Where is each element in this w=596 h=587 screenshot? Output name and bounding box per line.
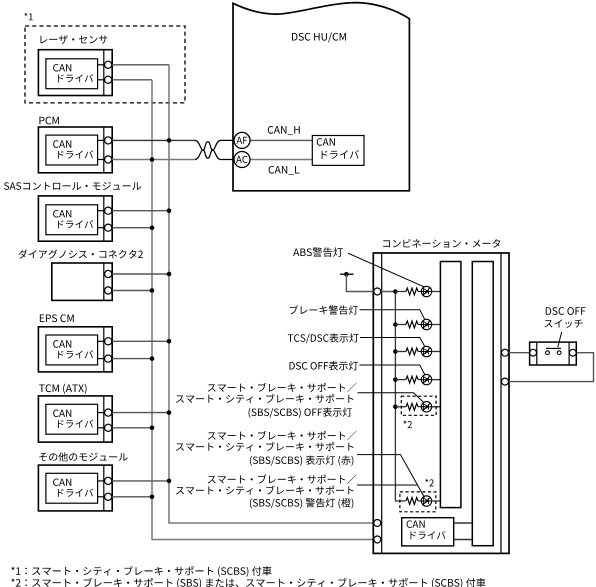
resistor R4 (DSC OFF indicator lamp) <box>406 376 418 383</box>
switch blade <box>546 347 561 349</box>
wire meter CAN driver to bar2 (H) <box>454 522 473 524</box>
pin switch left <box>530 349 537 356</box>
junction dot diagnosis CAN_H <box>167 272 172 277</box>
resistor R1 (ABS warning lamp) <box>406 288 418 295</box>
wire PCM CAN_L to DSC <box>112 159 195 161</box>
label SBS/SCBS orange lamp line1 <box>208 475 357 484</box>
junction dot PCM CAN_L / bus <box>150 157 155 162</box>
junction dot feed row4 <box>393 377 398 382</box>
wire PCM CAN_H to DSC <box>112 139 195 141</box>
wire lamp row 4 to bar <box>432 379 441 381</box>
lamp L6 SBS/SCBS warning lamp <box>418 496 440 506</box>
label *2 for OFF lamp <box>403 421 412 429</box>
label DSC OFF switch line2 <box>545 319 583 328</box>
wire meter CAN driver to bar2 (L) <box>454 539 473 541</box>
switch contact right <box>557 351 561 355</box>
wire AC to CAN driver (CAN_L inside DSC) <box>250 159 312 161</box>
module U1 laser sensor box <box>38 50 112 96</box>
pin EPS CAN_L <box>105 355 112 362</box>
twisted pair CAN_H strand <box>195 140 234 158</box>
label *1 <box>24 13 32 21</box>
junction dot feed row5 <box>393 405 398 410</box>
wire feed to resistor row 5 <box>395 406 406 408</box>
label SBS/SCBS OFF lamp line2 <box>176 394 353 403</box>
net label CAN_H <box>268 126 300 135</box>
leader line DSC OFF switch label <box>558 332 562 347</box>
leader line SBS/SCBS orange lamp label <box>357 484 417 486</box>
junction dot other CAN_L <box>150 495 155 500</box>
junction dot feed row2 <box>393 322 398 327</box>
wire lamp row 1 to bar <box>432 291 441 293</box>
pin meter switch out <box>502 349 509 356</box>
label laser sensor <box>40 35 107 44</box>
label ABS warning lamp <box>293 247 343 257</box>
leader line ABS warning lamp label <box>348 253 424 287</box>
lamp L3 TCS/DSC indicator lamp <box>418 346 440 356</box>
twisted pair CAN_L strand <box>195 142 234 160</box>
lamp L2 brake warning lamp <box>418 319 440 329</box>
wire CAN_H bus vertical line <box>169 65 402 523</box>
wire diagnosis CAN_L to bus <box>112 290 152 292</box>
dashed option box around SBS/SCBS warning lamp <box>400 492 436 512</box>
label *2 for warning lamp <box>425 479 434 487</box>
wire DSC OFF switch return loop <box>509 353 594 382</box>
wire TCM CAN_H to bus <box>112 412 169 414</box>
connector pin AC <box>234 152 250 168</box>
label TCS/DSC indicator lamp <box>288 333 359 343</box>
wire feed to resistor row 3 <box>395 351 406 353</box>
DSC HU/CM unit box <box>233 3 409 191</box>
lamp L5 SBS/SCBS OFF indicator lamp <box>418 402 440 412</box>
wire laser CAN_H to bus <box>112 64 169 66</box>
label other modules <box>39 452 128 461</box>
wire feed to resistor row 1 <box>395 291 406 293</box>
dashed option box around SBS/SCBS OFF lamp <box>401 396 436 415</box>
pin switch right <box>569 349 576 356</box>
label SAS control module <box>4 182 141 190</box>
junction dot feed row3 <box>393 349 398 354</box>
resistor R3 (TCS/DSC indicator lamp) <box>406 348 418 355</box>
wire feed to resistor row 4 <box>395 379 406 381</box>
internal bar 2 (meter controller block) <box>472 262 493 546</box>
power feed tap symbol <box>340 272 354 277</box>
module U3 SAS control module box <box>38 196 112 241</box>
label SBS/SCBS OFF lamp line1 <box>208 383 357 392</box>
CAN driver box inside other modules <box>46 473 104 503</box>
pin laser CAN_L <box>105 76 112 83</box>
wire power feed into meter <box>346 274 395 291</box>
junction dot diagnosis CAN_L <box>150 288 155 293</box>
wire AF to CAN driver (CAN_H inside DSC) <box>250 139 312 141</box>
pin TCM CAN_L <box>105 424 112 431</box>
label SBS/SCBS red lamp line2 <box>176 442 353 451</box>
internal bar 1 (lamp driver block) <box>440 262 461 508</box>
label SBS/SCBS OFF lamp line3 <box>249 408 352 418</box>
pin SAS CAN_H <box>105 207 112 214</box>
wire EPS CAN_H to bus <box>112 340 169 342</box>
wire other CAN_L to bus <box>112 496 152 498</box>
junction dot feed row1 <box>393 289 398 294</box>
wire lamp row 3 to bar <box>432 351 441 353</box>
junction dot TCM CAN_H <box>167 410 172 415</box>
junction dot TCM CAN_L <box>150 426 155 431</box>
CAN driver box inside SAS <box>46 205 104 235</box>
label SBS/SCBS orange lamp line3 <box>250 498 353 508</box>
net label CAN_L <box>269 166 300 175</box>
DSC OFF switch S1 box <box>530 342 577 365</box>
junction dot PCM CAN_H / bus <box>167 138 172 143</box>
pin TCM CAN_H <box>105 409 112 416</box>
wire meter to DSC OFF switch <box>509 352 530 354</box>
wire lamp row 5 to bar <box>432 406 441 408</box>
label SBS/SCBS red lamp line3 <box>250 456 353 466</box>
wire feed to resistor row 2 <box>395 324 406 326</box>
wire laser CAN_L to bus <box>112 79 152 81</box>
wire other CAN_H to bus <box>112 480 169 482</box>
pin laser CAN_H <box>105 61 112 68</box>
footnote 1 <box>11 566 271 577</box>
wire lamp row 6 to bar <box>432 500 441 502</box>
leader line brake warning lamp label <box>360 310 425 320</box>
footnote 2 <box>11 578 485 587</box>
label EPS CM <box>40 314 74 322</box>
connector pin AF <box>234 132 250 148</box>
module U4 EPS CM box <box>38 327 112 372</box>
switch contact left <box>546 351 550 355</box>
module U6 other modules box <box>38 465 112 511</box>
label DSC HU/CM <box>292 32 346 42</box>
module U2 PCM box <box>38 127 112 173</box>
CAN driver box inside DSC HU/CM <box>312 136 364 166</box>
lamp feed rail vertical <box>395 292 405 502</box>
pin EPS CAN_H <box>105 338 112 345</box>
wire SAS CAN_L to bus <box>112 227 152 229</box>
CAN driver box inside TCM <box>46 404 104 434</box>
CAN driver box inside laser sensor <box>46 59 104 89</box>
CAN driver box inside EPS CM <box>46 335 104 365</box>
junction dot EPS CAN_H <box>167 339 172 344</box>
label SBS/SCBS red lamp line1 <box>208 431 357 440</box>
resistor R6 (SBS/SCBS warning lamp) <box>406 498 418 505</box>
resistor R5 (SBS/SCBS OFF indicator lamp) <box>406 403 418 410</box>
pin meter CAN_H <box>374 520 381 527</box>
label SBS/SCBS orange lamp line2 <box>176 486 353 495</box>
pin diagnosis CAN_L <box>105 287 112 294</box>
meter left connector strip <box>381 253 383 553</box>
label PCM <box>39 117 58 125</box>
combination meter box <box>373 253 509 553</box>
connector J1 diagnosis connector 2 box <box>52 263 112 300</box>
wire SAS CAN_H to bus <box>112 210 169 212</box>
label TCM (ATX) <box>39 384 86 394</box>
CAN driver box inside PCM <box>46 135 104 165</box>
pin PCM CAN_L <box>105 156 112 163</box>
pin meter CAN_L <box>374 536 381 543</box>
leader line TCS/DSC lamp label <box>360 338 425 347</box>
leader line DSC OFF lamp label <box>360 365 425 375</box>
pin other CAN_H <box>105 477 112 484</box>
pin PCM CAN_H <box>105 137 112 144</box>
leader line SBS/SCBS OFF lamp label <box>358 393 424 402</box>
pin diagnosis CAN_H <box>105 270 112 277</box>
junction dot other CAN_H <box>167 479 172 484</box>
CAN driver box inside meter <box>402 518 454 546</box>
wire diagnosis CAN_H to bus <box>112 273 169 275</box>
resistor R2 (brake warning lamp) <box>406 321 418 328</box>
wire lamp row 2 to bar <box>432 324 441 326</box>
dashed option box *1 around laser sensor <box>25 26 185 103</box>
lamp L4 DSC OFF indicator lamp <box>418 374 440 384</box>
meter right connector strip <box>500 253 502 553</box>
junction dot EPS CAN_L <box>150 356 155 361</box>
module U5 TCM (ATX) box <box>38 396 112 442</box>
label brake warning lamp <box>290 305 358 314</box>
junction dot SAS CAN_H <box>167 208 172 213</box>
pin other CAN_L <box>105 493 112 500</box>
label DSC OFF indicator lamp <box>290 361 359 370</box>
wire CAN_L bus vertical line <box>152 80 402 540</box>
label diagnosis connector 2 <box>18 250 142 259</box>
pin meter lamp feed <box>374 288 381 295</box>
pin SAS CAN_L <box>105 224 112 231</box>
label DSC OFF switch <box>546 307 586 315</box>
junction dot SAS CAN_L <box>150 225 155 230</box>
lamp L1 ABS warning lamp <box>418 286 440 296</box>
wire TCM CAN_L to bus <box>112 427 152 429</box>
label combination meter title <box>383 239 500 248</box>
pin meter switch return <box>502 378 509 385</box>
wire EPS CAN_L to bus <box>112 358 152 360</box>
leader line SBS/SCBS red lamp label <box>357 455 425 498</box>
